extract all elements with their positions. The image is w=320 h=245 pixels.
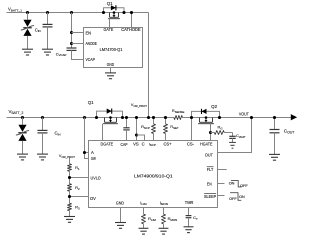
svg-text:GND: GND [116, 201, 124, 206]
svg-text:OV: OV [90, 196, 96, 201]
ground (TVS D1) [22, 48, 33, 50]
capacitor COUT [274, 118, 276, 130]
svg-text:ANODE: ANODE [86, 41, 97, 46]
wire GND stub (U1) [110, 68, 112, 73]
svg-text:VOUT: VOUT [239, 111, 249, 116]
svg-text:FLT: FLT [207, 167, 214, 172]
node CATHODE junction [130, 11, 133, 14]
resistor RSCP [153, 118, 155, 124]
svg-text:EN: EN [207, 181, 212, 186]
wire VBATT_2 rail [7, 117, 174, 119]
svg-text:C: C [142, 141, 145, 146]
svg-text:LM74900/910-Q1: LM74900/910-Q1 [134, 174, 173, 179]
ground (RLIM) [139, 227, 149, 229]
node VBATT_2 junctions [21, 116, 24, 119]
svg-text:ON: ON [239, 195, 245, 199]
svg-text:LM74700-Q1: LM74700-Q1 [100, 47, 123, 52]
resistor R3 [68, 203, 72, 211]
svg-text:CS-: CS- [187, 142, 195, 147]
wire EN stub [218, 183, 225, 185]
resistor RG (gate dv/dt resistor) [211, 132, 215, 134]
wire GND stub (U2) [120, 208, 122, 223]
capacitor CIN (stage 1) [47, 13, 49, 25]
svg-text:UVLO: UVLO [91, 176, 102, 181]
ground (divider) [64, 216, 75, 218]
op-amp U2 LM74900/910-Q1 controller box [89, 141, 218, 208]
svg-text:CAP: CAP [121, 142, 128, 147]
svg-text:TMR: TMR [185, 200, 194, 205]
ground (CIN stage 2) [37, 153, 48, 155]
svg-text:ON: ON [229, 182, 235, 186]
capacitor CdVdT [232, 133, 234, 137]
wire VOUT arrow [291, 114, 297, 120]
wire VS riser [136, 118, 138, 141]
resistor R2 [68, 184, 72, 192]
TVS diode D1 (input transient clamp) [27, 13, 29, 20]
svg-text:CS+: CS+ [164, 142, 173, 147]
svg-text:OFF: OFF [240, 184, 248, 188]
svg-text:VOR_PROT: VOR_PROT [59, 154, 75, 159]
node Q1 drain/source junctions (stage 1) [102, 11, 105, 14]
svg-text:VS: VS [133, 141, 139, 146]
node Q1 drain/source junctions [95, 116, 98, 119]
svg-text:OUT: OUT [205, 153, 213, 158]
TVS diode D2 (input transient clamp) [22, 118, 24, 125]
ground (CIN stage 1) [42, 48, 53, 50]
svg-text:SW: SW [91, 156, 96, 161]
capacitor CIN (stage 2) [42, 118, 44, 131]
wire ANODE stub [72, 43, 84, 45]
svg-text:Q2: Q2 [211, 104, 217, 109]
resistor RSENSE (in-line current sense) [174, 116, 183, 120]
ground (U2 GND) [115, 222, 126, 224]
svg-text:OFF: OFF [229, 197, 237, 201]
node Q2 drain/source junctions [190, 116, 193, 119]
resistor RMON [163, 208, 165, 215]
wire VCAP stub [72, 50, 84, 59]
wire SLEEP stub [218, 195, 225, 197]
svg-text:EN: EN [86, 30, 92, 35]
capacitor CT (timer) [188, 208, 190, 216]
resistor RLIM [143, 208, 145, 215]
ground (RMON) [159, 227, 169, 229]
wire CS- riser [191, 118, 193, 141]
svg-text:SLEEP: SLEEP [204, 194, 216, 199]
svg-text:A: A [91, 150, 94, 155]
svg-text:HGATE: HGATE [200, 142, 213, 147]
capacitor CVCAP [67, 47, 77, 49]
node VBATT_1 junctions [26, 11, 29, 14]
op-amp U1 LM74700-Q1 controller box [84, 28, 143, 68]
wire stage-1 output drop to OR node [148, 13, 150, 118]
svg-text:DGATE: DGATE [101, 142, 114, 147]
svg-text:Q1: Q1 [107, 1, 113, 6]
wire UVLO tap [70, 177, 89, 179]
resistor RSET [165, 118, 167, 124]
svg-text:Q1: Q1 [88, 100, 94, 105]
ground (U1 GND) [105, 72, 116, 74]
capacitor (CAP pin bootstrap) [126, 118, 128, 128]
svg-text:VOR_PROT: VOR_PROT [131, 103, 147, 108]
wire OV tap [70, 196, 89, 198]
node HGATE junction [209, 131, 212, 134]
node OR junction (stage 1 output) [147, 116, 150, 119]
wire EN stub [72, 32, 84, 34]
wire A/SW riser [85, 118, 89, 159]
svg-text:GND: GND [107, 62, 114, 67]
wire VBATT_1 rail [7, 12, 149, 14]
ground (COUT) [269, 153, 280, 155]
svg-text:CATHODE: CATHODE [121, 27, 141, 32]
svg-text:GATE: GATE [104, 27, 114, 32]
wire EN/ANODE branch [71, 13, 73, 48]
wire C pin branch [137, 135, 145, 141]
wire rail after RSENSE to VOUT [183, 117, 292, 119]
ground (CT) [184, 226, 194, 228]
wire OUT feedback [218, 118, 252, 153]
ground (TVS D2) [17, 153, 28, 155]
wire FLT stub [218, 169, 227, 171]
resistor R1 [69, 158, 71, 164]
wire CATHODE riser [131, 13, 133, 28]
svg-text:VCAP: VCAP [86, 57, 96, 62]
ground (CdVdT) [229, 141, 236, 143]
